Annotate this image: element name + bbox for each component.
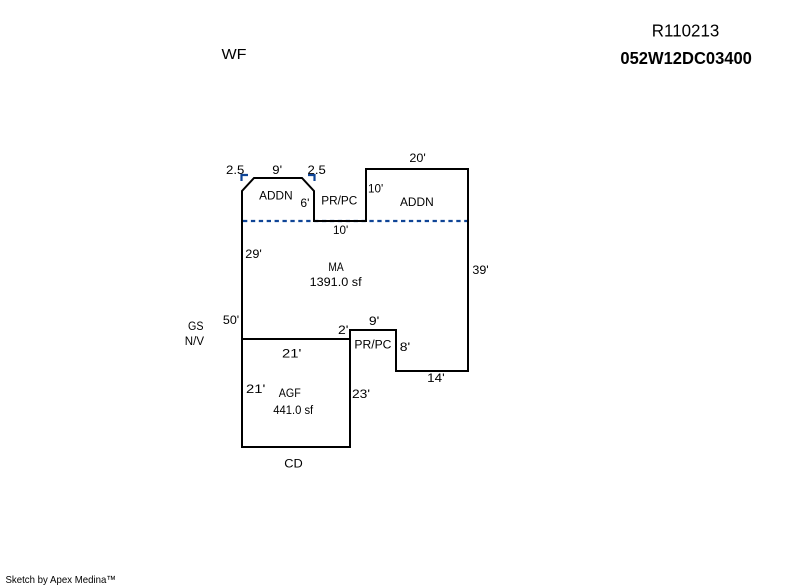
- svg-text:ADDN: ADDN: [400, 197, 434, 209]
- svg-text:2': 2': [338, 325, 348, 337]
- corner bracket right: [308, 175, 315, 181]
- svg-text:PR/PC: PR/PC: [321, 196, 357, 208]
- svg-text:6': 6': [300, 198, 309, 210]
- svg-text:Sketch by Apex Medina™: Sketch by Apex Medina™: [6, 574, 117, 586]
- svg-text:GS: GS: [188, 321, 204, 333]
- svg-text:29': 29': [245, 249, 261, 261]
- svg-text:ADDN: ADDN: [259, 190, 292, 202]
- svg-text:23': 23': [352, 389, 370, 401]
- svg-text:10': 10': [333, 225, 348, 237]
- svg-text:14': 14': [427, 373, 445, 385]
- svg-text:N/V: N/V: [185, 336, 205, 348]
- svg-text:39': 39': [472, 265, 488, 277]
- svg-text:21': 21': [246, 384, 265, 396]
- svg-text:CD: CD: [284, 459, 303, 471]
- svg-text:8': 8': [400, 342, 410, 354]
- svg-text:50': 50': [223, 315, 239, 327]
- svg-text:R110213: R110213: [652, 21, 720, 41]
- svg-text:2.5: 2.5: [308, 165, 326, 177]
- svg-text:9': 9': [369, 316, 379, 328]
- svg-text:2.5: 2.5: [226, 165, 244, 177]
- svg-text:21': 21': [282, 349, 301, 361]
- svg-text:MA: MA: [328, 262, 344, 274]
- svg-text:9': 9': [272, 165, 282, 177]
- svg-text:441.0 sf: 441.0 sf: [273, 405, 314, 417]
- AGF box: [242, 330, 350, 447]
- svg-text:10': 10': [368, 184, 383, 196]
- svg-text:AGF: AGF: [279, 388, 301, 400]
- svg-text:PR/PC: PR/PC: [354, 340, 391, 352]
- svg-text:052W12DC03400: 052W12DC03400: [620, 48, 752, 68]
- svg-text:20': 20': [409, 153, 425, 165]
- main outline MA + ADDN + PR/PC: [242, 169, 468, 371]
- corner bracket left: [242, 175, 249, 181]
- svg-text:1391.0 sf: 1391.0 sf: [310, 277, 363, 289]
- dashed original-wall line: [243, 220, 467, 222]
- svg-text:WF: WF: [222, 46, 247, 63]
